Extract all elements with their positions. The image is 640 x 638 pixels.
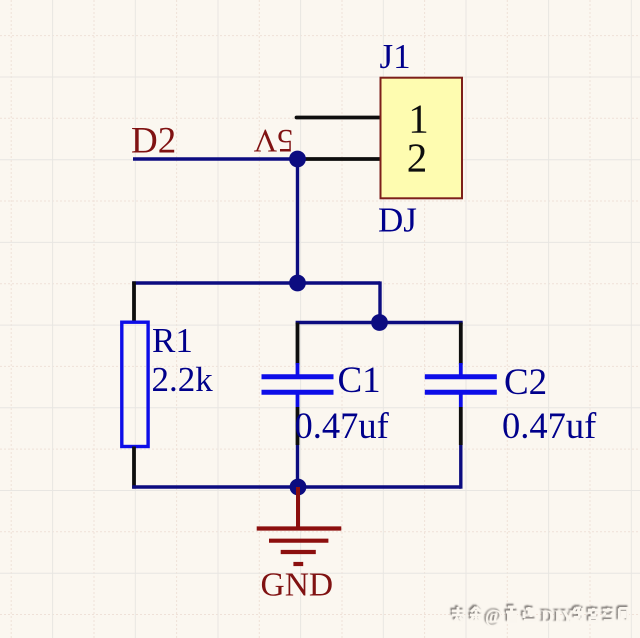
power port 5V (rotated 180) [253, 122, 293, 158]
capacitor C1 top pin [296, 323, 300, 365]
svg-text:J1: J1 [380, 37, 411, 76]
label J1 designator [380, 37, 411, 76]
label C2 designator [504, 362, 547, 403]
label R1 value 2.2k [152, 360, 214, 399]
net label D2 [131, 121, 176, 162]
resistor R1 body [122, 322, 148, 446]
svg-text:5V: 5V [253, 122, 293, 158]
wire corner riser to cap rail [378, 281, 381, 322]
wire pin1 of J1 (black) [297, 116, 382, 120]
resistor R1 top pin [132, 281, 136, 323]
capacitor C2 plates [425, 363, 497, 407]
capacitor C2 bottom pin [459, 407, 463, 445]
svg-text:0.47uf: 0.47uf [502, 405, 597, 446]
svg-text:D2: D2 [131, 121, 176, 162]
watermark 头条 @智造DIY创客空间 [452, 607, 628, 628]
label C2 value 0.47uf [502, 405, 597, 446]
svg-text:GND: GND [261, 567, 334, 604]
svg-text:2.2k: 2.2k [152, 360, 214, 399]
label DJ comment [378, 201, 417, 240]
svg-text:2: 2 [407, 135, 428, 181]
wire C2 bottom to rail [459, 445, 462, 489]
resistor R1 bottom pin [132, 447, 136, 489]
svg-text:C1: C1 [338, 360, 381, 401]
junction node 5V at pin2 [289, 151, 306, 168]
ground lead wire [296, 487, 300, 529]
svg-text:C2: C2 [504, 362, 547, 403]
svg-text:DJ: DJ [378, 201, 417, 240]
label C1 designator [338, 360, 381, 401]
wire C1 bottom to rail [296, 445, 299, 487]
wire 5V riser vertical [296, 159, 299, 283]
wire net D2 (horizontal navy) [133, 157, 298, 160]
svg-text:@: @ [485, 608, 502, 628]
wire bottom rail horizontal [132, 485, 461, 488]
ground symbol bars [257, 529, 342, 565]
label C1 value 0.47uf [295, 405, 390, 446]
svg-text:DIY: DIY [541, 607, 574, 627]
pin number 1 [408, 96, 429, 142]
power port label GND [261, 567, 334, 604]
junction node top rail [289, 275, 306, 292]
label R1 designator [152, 321, 193, 360]
svg-text:R1: R1 [152, 321, 193, 360]
wire pin2 of J1 (black) [298, 157, 382, 161]
capacitor C1 bottom pin [296, 407, 300, 445]
connector J1 body [381, 78, 463, 199]
wire top rail horizontal [132, 281, 380, 284]
wire cap rail horizontal [296, 321, 463, 324]
junction node cap rail [371, 314, 388, 331]
junction node GND on bottom rail [290, 479, 307, 496]
svg-text:0.47uf: 0.47uf [295, 405, 390, 446]
pin number 2 [407, 135, 428, 181]
capacitor C1 plates [262, 363, 334, 407]
capacitor C2 top pin [459, 323, 463, 365]
